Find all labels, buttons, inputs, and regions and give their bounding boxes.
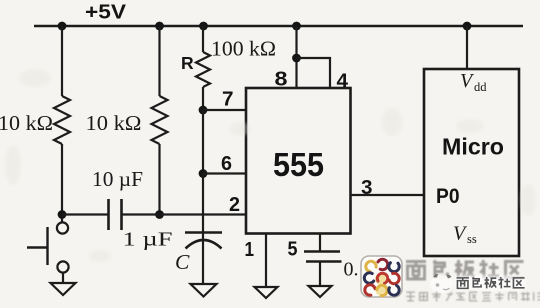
+5V power rail (34, 25, 523, 28)
ground (capacitor C) (191, 284, 217, 297)
node dot: pin8/pin4 branch (292, 54, 301, 63)
svg-text:5: 5 (288, 239, 298, 261)
wire: pin6 node down to capacitor C (202, 174, 204, 233)
svg-text:2: 2 (229, 194, 240, 216)
svg-text:8: 8 (275, 69, 288, 91)
node dot: rail / 100k column (199, 22, 208, 31)
wire: rail down to R2 top (158, 26, 160, 96)
capacitor C top plate (185, 231, 222, 234)
watermark small text: mian bao ban she qu (dark on white halo) (454, 276, 525, 291)
svg-text:4: 4 (337, 71, 349, 93)
svg-text:P0: P0 (436, 185, 460, 208)
label Vdd (460, 70, 487, 94)
node dot: switch / 10uF node (58, 210, 67, 219)
wire: R2 bottom to node (158, 144, 160, 215)
node dot: rail / left 10k column (58, 22, 67, 31)
resistor R1 10 kOhm (left) (54, 96, 70, 144)
wire: R bottom to pin7 node (202, 87, 204, 110)
pushbutton switch S1: actuator stem (27, 246, 48, 248)
pushbutton switch S1: bottom terminal circle (57, 261, 68, 272)
svg-text:555: 555 (273, 147, 324, 184)
svg-text:7: 7 (222, 89, 234, 111)
svg-text:100 kΩ: 100 kΩ (211, 37, 276, 61)
wire: branch to pin 4 (297, 58, 331, 88)
svg-text:0.: 0. (344, 259, 359, 281)
capacitor C curved plate (186, 240, 222, 249)
wire: pin 6 (203, 172, 246, 174)
svg-text:3: 3 (361, 177, 373, 199)
svg-text:10 kΩ: 10 kΩ (0, 111, 53, 135)
pushbutton switch S1: top terminal circle (57, 222, 68, 233)
wire: rail down to pin 8 (295, 26, 297, 88)
wire: rail down to R1 top (61, 26, 63, 96)
char she (480, 261, 500, 280)
svg-text:10 µF: 10 µF (92, 167, 143, 191)
node dot: pin 7 junction (199, 106, 208, 115)
svg-text:dd: dd (474, 80, 487, 94)
svg-text:1 µF: 1 µF (123, 229, 173, 251)
svg-text:+5V: +5V (85, 1, 126, 24)
ground (pin 1) (255, 287, 278, 298)
node dot: rail / Vdd column (463, 22, 472, 31)
wire: 10uF right plate to 555 pin 2 (123, 213, 247, 215)
left border line (4, 0, 6, 302)
ground (switch) (51, 283, 76, 295)
resistor R 100 kOhm (196, 52, 210, 87)
char ban (455, 260, 474, 279)
watermark bottom slogan line (faint gray) (406, 292, 540, 302)
node dot: pin 6 junction (199, 169, 208, 178)
microcontroller U2 body (424, 69, 519, 256)
wire: pin 1 to ground (265, 234, 267, 288)
paper noise blotches (decorative) (5, 69, 536, 262)
wire: bypass cap to ground (319, 262, 321, 287)
char qu (506, 262, 524, 279)
svg-text:C: C (175, 250, 190, 274)
capacitor 10 uF (plates) (109, 199, 122, 230)
wire: trigger node horizontal left segment (to 10uF left plate) (62, 213, 108, 215)
wire: pin 3 output to P0 (351, 194, 425, 196)
node dot: rail / pin8 column (292, 22, 301, 31)
wire: R1 bottom to switch node (61, 144, 63, 223)
svg-text:6: 6 (221, 153, 232, 175)
char mian (406, 262, 426, 280)
resistor R2 10 kOhm (second) (152, 96, 168, 144)
watermark big text: mian bao ban she qu (gray) (406, 260, 524, 279)
watermark small icon (white mascot) (430, 274, 453, 294)
wire: rail down to Micro Vdd (466, 26, 468, 69)
svg-text:ss: ss (467, 232, 477, 246)
wire: rail down to R 100k top (202, 26, 204, 52)
wire: pin7 node down to pin6 node (202, 110, 204, 174)
watermark logo: rounded square (361, 256, 402, 297)
label Vss (453, 223, 477, 247)
ground (pin 5 cap) (309, 286, 332, 297)
node dot: rail / second 10k column (155, 22, 164, 31)
svg-text:10 kΩ: 10 kΩ (86, 111, 142, 135)
capacitor 0.01 uF (plates) (304, 252, 342, 262)
pushbutton switch S1: contact bar (46, 227, 48, 265)
wire: pin 7 (203, 109, 246, 111)
wire: capacitor C to ground (202, 233, 204, 284)
svg-text:1: 1 (245, 239, 255, 261)
wire: switch bottom to ground (62, 273, 64, 283)
svg-text:Micro: Micro (442, 134, 504, 160)
IC 555 U1 body (246, 88, 351, 234)
node dot: R2 bottom / trigger wire (155, 210, 164, 219)
svg-text:R: R (181, 53, 194, 73)
wire: pin 5 to bypass cap (319, 234, 321, 252)
char bao (434, 261, 448, 277)
